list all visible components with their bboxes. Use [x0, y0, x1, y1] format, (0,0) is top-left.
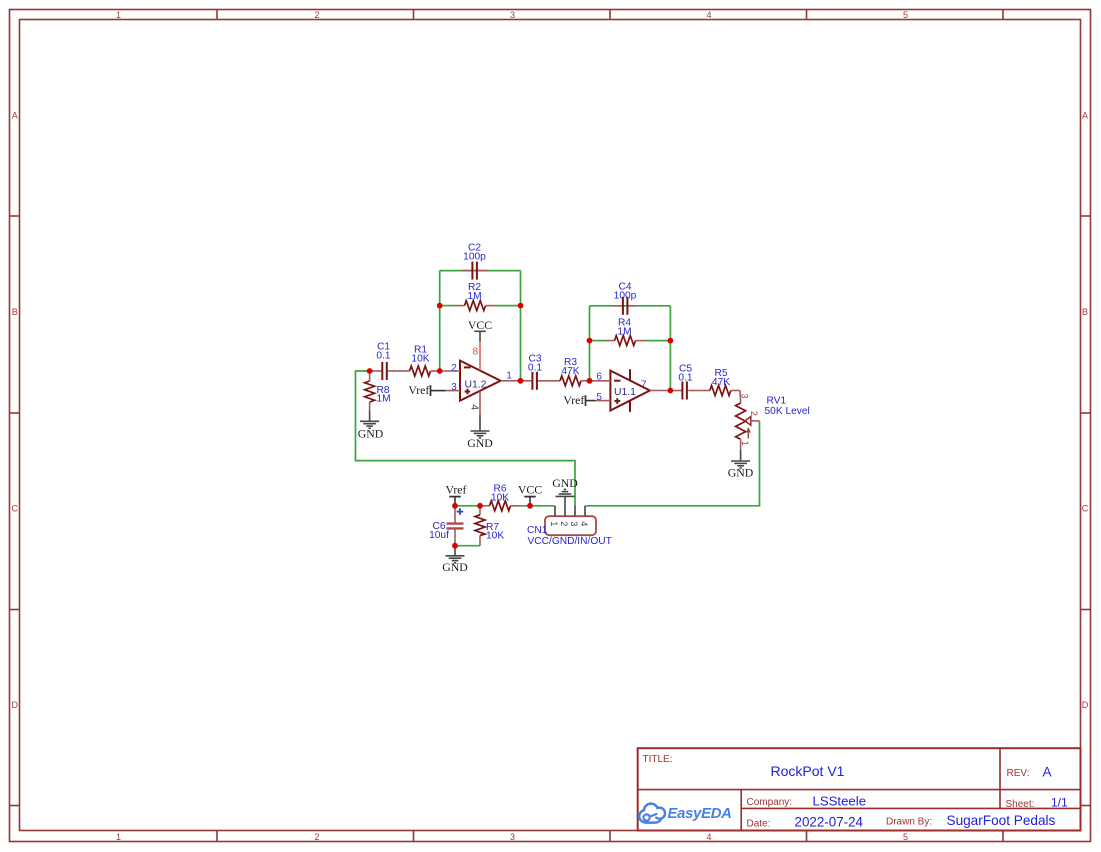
svg-text:C: C: [1082, 504, 1089, 514]
svg-text:2: 2: [314, 10, 319, 20]
svg-text:LSSteele: LSSteele: [813, 793, 867, 808]
resistor R7: [475, 506, 504, 546]
svg-text:VCC: VCC: [468, 318, 492, 332]
svg-text:SugarFoot Pedals: SugarFoot Pedals: [947, 813, 1056, 828]
frame row letters: [12, 111, 1089, 711]
svg-text:47K: 47K: [561, 366, 579, 377]
svg-text:1/1: 1/1: [1051, 796, 1068, 810]
svg-text:EasyEDA: EasyEDA: [668, 806, 732, 822]
svg-text:Date:: Date:: [747, 819, 771, 830]
resistor R5: [700, 368, 740, 396]
title block: [638, 748, 1081, 830]
VCC flag above U1.2: [474, 330, 485, 332]
svg-text:1: 1: [740, 441, 750, 446]
svg-text:3: 3: [740, 394, 750, 399]
capacitor C3: [521, 354, 551, 390]
wire CN1 pin4 to RV1 wiper elbow: [586, 421, 760, 506]
pin 4 (GND): [479, 391, 481, 415]
svg-text:3: 3: [451, 382, 457, 393]
svg-text:A: A: [1082, 111, 1088, 121]
svg-text:GND: GND: [552, 476, 578, 490]
svg-text:5: 5: [903, 832, 908, 842]
svg-text:Company:: Company:: [747, 797, 793, 808]
svg-text:GND: GND: [358, 427, 384, 441]
wire feedback loop 1 right vertical (to pin1 node): [520, 271, 522, 381]
svg-text:GND: GND: [728, 466, 754, 480]
resistor R6: [480, 484, 520, 511]
svg-text:0.1: 0.1: [376, 351, 390, 362]
wire IN net: C1 left to lower routing to CN1 pin3: [356, 371, 576, 506]
svg-text:1M: 1M: [377, 394, 391, 405]
svg-text:4: 4: [706, 832, 711, 842]
svg-text:VCC/GND/IN/OUT: VCC/GND/IN/OUT: [528, 536, 612, 547]
svg-text:3: 3: [569, 521, 579, 526]
frame column numbers top: [116, 10, 908, 20]
svg-text:Drawn By:: Drawn By:: [886, 817, 932, 828]
svg-text:100p: 100p: [463, 252, 486, 263]
svg-text:Vref: Vref: [563, 393, 584, 407]
op-amp U1.2: [440, 318, 521, 450]
svg-text:5: 5: [596, 392, 602, 403]
capacitor C1: [370, 342, 400, 381]
svg-text:GND: GND: [442, 560, 468, 574]
wire R2 row segments: [440, 305, 521, 307]
svg-text:RockPot V1: RockPot V1: [771, 763, 845, 779]
svg-text:Vref: Vref: [408, 383, 429, 397]
wire feedback loop 2 top (C4 row): [590, 305, 671, 307]
svg-text:U1.2: U1.2: [465, 379, 487, 390]
resistor R8: [365, 371, 391, 411]
svg-text:8: 8: [472, 347, 478, 358]
connector CN1: [527, 497, 612, 547]
svg-text:B: B: [1082, 307, 1088, 317]
svg-text:Sheet:: Sheet:: [1006, 799, 1035, 810]
svg-text:RV1: RV1: [767, 396, 787, 407]
capacitor C2: [462, 243, 487, 280]
svg-text:1: 1: [116, 832, 121, 842]
svg-text:A: A: [12, 111, 18, 121]
ground under R8: [358, 411, 384, 441]
capacitor C6 (polarized): [429, 506, 463, 546]
Vref flag at U1.1 pin 5: [563, 393, 595, 407]
pin 8 (VCC): [479, 331, 481, 341]
frame column numbers bottom: [116, 832, 908, 842]
resistor R4: [605, 318, 645, 346]
svg-text:2: 2: [451, 363, 457, 374]
svg-text:4: 4: [579, 521, 589, 526]
capacitor C5: [670, 364, 700, 400]
wire Vref node to R7 top: [455, 505, 480, 507]
ground under C6: [442, 546, 468, 574]
svg-text:CN1: CN1: [527, 525, 548, 536]
svg-text:6: 6: [596, 371, 602, 382]
svg-text:A: A: [1043, 764, 1053, 779]
svg-text:1: 1: [506, 371, 512, 382]
svg-text:0.1: 0.1: [678, 373, 692, 384]
junction dots: [367, 303, 674, 549]
svg-text:1M: 1M: [617, 327, 631, 338]
svg-text:4: 4: [706, 10, 711, 20]
svg-text:10K: 10K: [411, 354, 429, 365]
wire feedback loop 2 left vertical (pin6 node up): [589, 306, 591, 381]
wire feedback loop 1 top (C2 row): [440, 270, 521, 272]
svg-text:2: 2: [559, 521, 569, 526]
op-amp U1.1: [590, 369, 671, 412]
svg-text:VCC: VCC: [518, 483, 542, 497]
svg-text:3: 3: [510, 10, 515, 20]
svg-text:C: C: [12, 504, 19, 514]
resistor R2: [455, 282, 495, 311]
wire R6 right to VCC junction and CN1 pin1: [520, 505, 555, 507]
svg-text:7: 7: [641, 380, 647, 391]
capacitor C4: [613, 282, 638, 315]
svg-text:3: 3: [510, 832, 515, 842]
svg-text:TITLE:: TITLE:: [643, 754, 673, 765]
svg-text:U1.1: U1.1: [614, 387, 636, 398]
svg-text:0.1: 0.1: [528, 363, 542, 374]
EasyEDA logo: [639, 804, 665, 823]
svg-text:GND: GND: [467, 436, 493, 450]
svg-text:2: 2: [749, 411, 759, 416]
svg-text:B: B: [12, 307, 18, 317]
Vref flag bottom (C6 node): [446, 483, 467, 506]
svg-text:1: 1: [549, 521, 559, 526]
resistor R1: [400, 345, 440, 377]
svg-text:REV:: REV:: [1007, 768, 1030, 779]
resistor R3: [550, 357, 590, 386]
svg-text:1: 1: [116, 10, 121, 20]
svg-text:2022-07-24: 2022-07-24: [795, 815, 864, 830]
svg-text:Vref: Vref: [446, 483, 467, 497]
svg-text:10uf: 10uf: [429, 530, 449, 541]
VCC flag bottom (R6 node): [518, 483, 542, 506]
svg-text:47K: 47K: [712, 377, 730, 388]
svg-text:10K: 10K: [491, 493, 509, 504]
wire C6 bottom to R7 bottom: [455, 545, 480, 547]
ground under RV1: [728, 450, 754, 480]
Vref flag at U1.2 pin 3: [408, 383, 445, 397]
svg-text:1M: 1M: [467, 291, 481, 302]
svg-text:10K: 10K: [486, 531, 504, 542]
wire feedback loop 1 left vertical (pin2 node up): [439, 271, 441, 371]
ground above CN1 pin 2 (flipped): [552, 476, 578, 497]
potentiometer RV1: [736, 391, 810, 451]
svg-text:100p: 100p: [614, 291, 637, 302]
svg-text:4: 4: [468, 404, 480, 410]
svg-text:50K Level: 50K Level: [765, 406, 810, 417]
wire feedback loop 2 right vertical (to pin7 node): [669, 306, 671, 391]
svg-text:2: 2: [314, 832, 319, 842]
svg-text:D: D: [1082, 700, 1089, 710]
wire R4 row segments: [590, 340, 671, 342]
svg-text:5: 5: [903, 10, 908, 20]
svg-text:D: D: [12, 700, 19, 710]
ground under U1.2: [471, 430, 490, 432]
CIRCUIT: [356, 243, 810, 574]
